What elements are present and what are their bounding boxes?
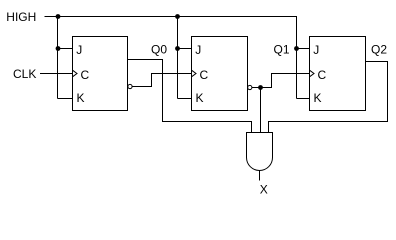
svg-text:K: K	[77, 91, 85, 105]
junction dot U3 J	[294, 46, 299, 51]
clock triangle U1	[73, 70, 78, 77]
flip-flop U3 body	[310, 37, 366, 111]
wire AND gate output stub	[259, 171, 261, 181]
wire HIGH rail	[45, 16, 298, 18]
wire HIGH drop to U2	[177, 17, 179, 99]
svg-text:Q1: Q1	[274, 42, 290, 56]
wire HIGH drop to U3	[296, 16, 298, 99]
svg-text:CLK: CLK	[13, 67, 36, 81]
svg-text:J: J	[195, 43, 201, 57]
svg-text:C: C	[200, 68, 209, 82]
wire K input U3	[297, 98, 310, 100]
wire CLK to U1 clock	[40, 73, 73, 75]
wire Qbar U2 to U3 clock	[252, 74, 310, 88]
wire Q output U1 to AND gate input 1	[128, 60, 252, 134]
inverted output bubble U2	[248, 85, 252, 89]
svg-text:J: J	[76, 43, 82, 57]
wire Qbar U1 to U2 clock	[132, 74, 192, 87]
wire J input U2	[178, 48, 192, 50]
svg-text:Q0: Q0	[151, 42, 167, 56]
junction dot HIGH rail / U1 drop	[56, 14, 61, 19]
junction dot Qbar U2	[258, 85, 263, 90]
junction dot U1 J	[56, 46, 61, 51]
wire HIGH drop to U1	[57, 17, 59, 99]
wire K input U1	[58, 98, 73, 100]
svg-text:C: C	[81, 68, 90, 82]
flip-flop U1 body	[73, 37, 128, 111]
flip-flop U2 body	[192, 37, 248, 111]
inverted output bubble U1	[128, 84, 132, 88]
AND gate body	[247, 133, 273, 171]
svg-text:K: K	[196, 91, 204, 105]
wire Qbar U2 down to AND gate input 2	[260, 88, 262, 134]
clock triangle U2	[192, 70, 197, 77]
svg-text:C: C	[318, 68, 327, 82]
clock triangle U3	[310, 70, 315, 77]
svg-text:Q2: Q2	[371, 42, 387, 56]
svg-text:K: K	[314, 91, 322, 105]
svg-text:X: X	[260, 183, 268, 197]
wire J input U3	[297, 48, 310, 50]
junction dot HIGH rail / U2 drop	[175, 14, 180, 19]
junction dot U2 J	[175, 46, 180, 51]
wire Q2 output U3 to AND gate input 3	[269, 62, 388, 134]
svg-text:J: J	[313, 43, 319, 57]
svg-text:HIGH: HIGH	[6, 10, 36, 24]
wire J input U1	[58, 48, 73, 50]
wire K input U2	[178, 98, 192, 100]
